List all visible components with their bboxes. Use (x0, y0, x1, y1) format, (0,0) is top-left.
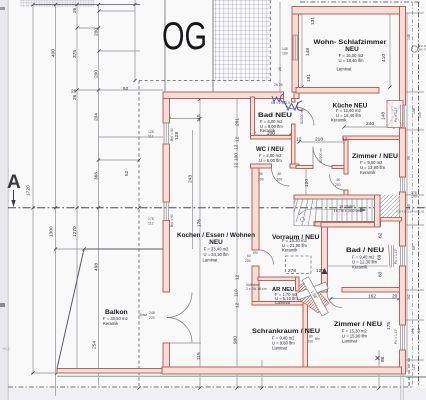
svg-text:Laminat: Laminat (337, 67, 353, 72)
wall: bad/zimmer divider seg2 (342, 288, 400, 293)
door arc: bad entry (284, 99, 295, 110)
svg-text:6%: 6% (315, 337, 320, 341)
section marker A (7, 172, 21, 207)
bottom page strip (0, 388, 426, 400)
svg-text:191: 191 (306, 74, 312, 82)
svg-text:243: 243 (188, 175, 194, 183)
svg-text:OG: OG (162, 15, 207, 58)
svg-text:240: 240 (366, 121, 374, 127)
wall: corridor south seg1 (296, 166, 313, 169)
left scan edge band (0, 0, 9, 400)
door arc: zimmer-mid from corridor (313, 147, 333, 167)
svg-text:18 Stufen: 18 Stufen (339, 205, 354, 209)
wall: bad-wc east seg1 (292, 99, 296, 103)
svg-text:12: 12 (235, 274, 241, 280)
svg-text:U = 34,10 lfm: U = 34,10 lfm (203, 252, 229, 257)
door arc: wc entry (272, 168, 290, 186)
room label: balkon (103, 309, 128, 326)
svg-text:375: 375 (72, 50, 78, 58)
svg-text:69: 69 (377, 254, 383, 260)
wall: bad/wc divider (251, 136, 296, 140)
boundary dash-dot right x419.5 (418, 2, 420, 387)
dim horizontal y51 (99, 50, 140, 52)
room label: zimmer bottom (334, 321, 382, 344)
wall: north exterior (292, 7, 406, 15)
door arc: zimmer-mid second (330, 175, 346, 191)
svg-text:278: 278 (288, 268, 296, 274)
svg-text:Laminat: Laminat (272, 346, 288, 351)
svg-text:Bad NEU: Bad NEU (258, 112, 293, 119)
AR corner red hatch backdrop (299, 280, 329, 313)
svg-text:Laminat: Laminat (275, 300, 291, 305)
svg-text:60: 60 (337, 178, 341, 182)
svg-text:80: 80 (278, 172, 282, 176)
wall: left exterior segment 1 (163, 92, 170, 123)
svg-text:99: 99 (407, 156, 411, 160)
svg-text:+6,2: +6,2 (2, 346, 11, 351)
svg-text:Keramik: Keramik (282, 248, 298, 253)
door arc: balkon french left bottom (167, 318, 192, 343)
micro annotations (140, 34, 425, 370)
room label: AR neu (272, 287, 298, 305)
dim horizontal y90 (77, 89, 163, 91)
svg-text:204: 204 (94, 113, 100, 121)
dim horizontal y343 door sill (166, 342, 201, 344)
dim horizontal y160 (99, 159, 140, 161)
window: right wall zimmer-mid (401, 177, 405, 192)
dim horizontal y11 (99, 10, 135, 12)
svg-text:162: 162 (407, 294, 411, 300)
stairs walk line with arrow (299, 209, 366, 215)
wall: bad-lower north from stairs (321, 223, 375, 228)
svg-text:U = 6,00 lfm: U = 6,00 lfm (259, 158, 282, 163)
circle symbol right (411, 46, 417, 52)
svg-text:A: A (7, 172, 21, 193)
green line below bottom wall (57, 375, 412, 377)
room label: vorraum (272, 234, 320, 253)
svg-text:410: 410 (381, 54, 387, 62)
svg-text:12: 12 (235, 136, 241, 142)
dim vertical x200 interior chain (199, 99, 201, 388)
svg-text:366: 366 (94, 172, 100, 180)
dim vertical x280 (279, 2, 281, 92)
left edge smudge marks (0, 7, 5, 10)
svg-text:900: 900 (233, 336, 239, 344)
boundary dash-dot top y2 (300, 1, 420, 3)
svg-text:90/200 eh: 90/200 eh (319, 148, 323, 163)
svg-text:Keramik: Keramik (352, 265, 368, 270)
dim vertical x213 (212, 0, 214, 92)
dim horizontal top y4.5 (33, 4, 140, 6)
dim vertical x302 in schlafzimmer (301, 13, 303, 87)
horizontal dims (267, 121, 398, 300)
dim vertical x77 (76, 5, 78, 373)
svg-text:128: 128 (148, 130, 154, 134)
wall: stairs east (375, 195, 381, 227)
dim horizontal y118.5 tie (169, 118, 200, 120)
svg-text:Keramik: Keramik (360, 170, 376, 175)
wall: AR north (258, 277, 299, 281)
svg-text:Bad / NEU: Bad / NEU (346, 247, 384, 254)
window: schlafzimmer west wall (292, 35, 299, 60)
dashed rect skylight vorraum (286, 256, 312, 274)
wall: bad-wc east seg2 (292, 124, 296, 164)
svg-text:12: 12 (296, 137, 302, 143)
wall: schrankraum/zimmer divider (303, 295, 308, 367)
svg-text:200: 200 (258, 178, 264, 182)
dim vertical x306 corridor (305, 168, 307, 195)
svg-text:100: 100 (234, 153, 240, 161)
room label: wc neu (256, 147, 284, 163)
svg-text:Ka = 2,5x1,5: Ka = 2,5x1,5 (271, 101, 290, 105)
svg-text:200: 200 (335, 183, 341, 187)
wall: stairs north (294, 195, 380, 199)
wall: stub right of bad door (294, 92, 299, 99)
svg-text:254: 254 (92, 341, 98, 349)
svg-text:6%: 6% (253, 251, 258, 255)
window: left wall lower (163, 202, 170, 221)
svg-text:Balkon: Balkon (105, 309, 128, 316)
svg-text:109: 109 (282, 52, 288, 56)
svg-text:148: 148 (305, 48, 311, 56)
room label: schrankraum (252, 328, 320, 351)
svg-text:69: 69 (412, 246, 416, 250)
svg-text:60: 60 (378, 271, 384, 277)
svg-text:Keramik: Keramik (103, 321, 119, 326)
dashed vertical x139 (138, 81, 140, 389)
boundary vertical x409 bottom right (408, 358, 410, 387)
hatch area top-center (roof below) (214, 0, 271, 81)
wall: bottom exterior (162, 367, 402, 374)
svg-text:Zimmer / NEU: Zimmer / NEU (352, 153, 398, 160)
stairs walk start circle (301, 218, 305, 222)
boundary dash-dot bottom y387 (8, 386, 412, 388)
x mark bottom (376, 356, 380, 360)
svg-text:115: 115 (412, 364, 416, 370)
svg-text:16,7/6 x 28,0 cm: 16,7/6 x 28,0 cm (334, 209, 361, 213)
AR diagonal bar B (302, 277, 328, 316)
svg-text:120: 120 (304, 179, 310, 187)
svg-text:86: 86 (380, 356, 386, 362)
svg-text:175: 175 (386, 322, 392, 330)
svg-text:1270: 1270 (72, 226, 78, 237)
dim horizontal y373 rail tie (31, 372, 57, 374)
svg-text:62: 62 (378, 232, 384, 238)
svg-text:Kochen / Essen / Wohnen: Kochen / Essen / Wohnen (177, 232, 255, 239)
svg-text:Brü = 90: Brü = 90 (170, 128, 174, 141)
dim horizontal y127 kueche (344, 126, 395, 128)
shaft box kueche (387, 101, 403, 128)
stairs winder treads (315, 199, 317, 226)
svg-text:162: 162 (368, 294, 376, 300)
dim horizontal y298.5 (331, 298, 399, 300)
wall: schlafzimmer west (292, 10, 299, 92)
svg-text:90/200 eh: 90/200 eh (300, 109, 304, 124)
svg-text:26: 26 (278, 67, 282, 71)
svg-text:26 26: 26 26 (274, 83, 283, 87)
wall: schlafzimmer/kueche divider (296, 88, 379, 94)
svg-text:12: 12 (234, 162, 240, 168)
AR diagonal bar A (296, 282, 328, 300)
svg-text:248: 248 (149, 311, 155, 315)
room label: zimmer mid (352, 153, 398, 175)
svg-text:143: 143 (407, 204, 411, 210)
room label: bad neu (258, 112, 293, 133)
section line A-A (8, 207, 426, 209)
hatch strip top-left (20, 0, 95, 7)
stairs treads (321, 199, 323, 223)
svg-text:12: 12 (316, 268, 322, 274)
svg-text:Zimmer / NEU: Zimmer / NEU (334, 321, 382, 328)
svg-text:200: 200 (245, 259, 251, 263)
dim vertical x262 bottom (261, 360, 263, 388)
window: right wall bad-lower (389, 245, 405, 268)
svg-text:20: 20 (392, 294, 398, 300)
svg-text:Pu = 1,17: Pu = 1,17 (394, 249, 398, 264)
wall: left exterior segment 2 (163, 144, 170, 202)
dim vertical x237 interior chain (236, 97, 238, 388)
room label: wohn-schlafzimmer (314, 39, 388, 72)
dim vertical x135 (134, 0, 136, 81)
svg-text:115: 115 (196, 352, 202, 360)
dim vertical x165 top (164, 0, 166, 92)
svg-text:Pu = 1,17: Pu = 1,17 (394, 329, 398, 344)
svg-text:Keramik: Keramik (331, 118, 347, 123)
svg-text:80: 80 (259, 172, 263, 176)
blue handwriting WC (272, 94, 304, 110)
wall: right exterior seg2 (400, 128, 406, 177)
dim vertical x192.5 interior (192, 130, 194, 249)
wall: corridor south seg2 (332, 166, 344, 169)
svg-text:201: 201 (235, 118, 241, 126)
wall: corridor west seg1 (252, 168, 259, 250)
svg-text:128: 128 (417, 328, 421, 334)
svg-text:F = 33,40 m2: F = 33,40 m2 (204, 247, 229, 252)
wall: right exterior seg1 (400, 7, 406, 106)
window: right wall zimmer-bottom (401, 325, 405, 350)
wall: balkon south rail (57, 369, 162, 374)
svg-text:178: 178 (148, 217, 154, 221)
right chain ticks (405, 12, 424, 14)
svg-text:52: 52 (124, 170, 130, 176)
svg-text:148: 148 (282, 47, 288, 51)
dim vertical x33 (32, 5, 34, 374)
dim vertical x379 bottom (378, 350, 380, 388)
svg-text:26: 26 (71, 89, 77, 95)
svg-text:115: 115 (196, 114, 202, 122)
svg-text:110: 110 (234, 289, 240, 297)
wall: wc south seg1 (251, 164, 272, 168)
svg-text:2 x DN 16 cm: 2 x DN 16 cm (246, 287, 267, 291)
svg-text:200: 200 (267, 131, 275, 137)
svg-text:498: 498 (94, 263, 100, 271)
svg-text:400: 400 (51, 49, 57, 57)
svg-text:U = 18,40 lfm: U = 18,40 lfm (338, 58, 364, 63)
svg-text:200: 200 (308, 340, 314, 344)
door arc: kueche entry (296, 107, 315, 126)
svg-text:Pu = 1,17: Pu = 1,17 (394, 107, 398, 122)
svg-text:148: 148 (412, 108, 416, 114)
svg-text:220: 220 (149, 316, 155, 320)
svg-text:12: 12 (234, 144, 240, 150)
dashed horizontal y80.5 (139, 80, 272, 82)
right chain vertical x407 (406, 13, 408, 372)
wall: left exterior segment 4 (163, 343, 170, 374)
svg-text:1300: 1300 (49, 226, 55, 237)
svg-text:112: 112 (148, 222, 154, 226)
svg-text:1720: 1720 (26, 185, 32, 196)
wall: zimmer-mid north (343, 136, 400, 140)
svg-text:112: 112 (148, 135, 154, 139)
svg-text:109: 109 (411, 195, 417, 199)
svg-text:26: 26 (72, 94, 78, 100)
svg-text:Brise: Brise (140, 313, 148, 317)
svg-text:178: 178 (411, 328, 415, 334)
wall: stairs south (314, 222, 381, 227)
svg-text:NEU: NEU (345, 46, 359, 53)
svg-text:200: 200 (277, 178, 283, 182)
dim horizontal y28 (77, 27, 99, 29)
hatch right dashed boundary (269, 0, 271, 81)
svg-text:DN 70: DN 70 (419, 48, 426, 52)
room label: kochen essen wohnen (177, 232, 255, 263)
svg-text:200: 200 (94, 70, 100, 78)
right chain vertical x412.5 (412, 2, 414, 387)
svg-text:Laminat: Laminat (342, 339, 358, 344)
dim vertical x98.5 (98, 5, 100, 386)
dim horizontal y133.5 bad (254, 134, 291, 136)
wall: bad/zimmer divider seg1 (303, 288, 327, 293)
dim vertical x55.5 (55, 5, 57, 397)
door arc: zimmer-bottom entry (327, 293, 342, 308)
svg-text:148: 148 (407, 34, 411, 40)
door arc: vorraum from kochen (259, 250, 274, 265)
dim horizontal y137 window sill (99, 136, 164, 138)
window: right wall kueche (401, 105, 405, 128)
balkon top edge (84, 248, 163, 250)
window: left wall upper (163, 123, 170, 144)
svg-text:Wohn- Schlafzimmer: Wohn- Schlafzimmer (314, 39, 388, 46)
wall: right exterior seg3 (400, 266, 406, 325)
svg-text:148: 148 (381, 112, 387, 120)
svg-text:Laminat: Laminat (203, 258, 219, 263)
balkon slanted west edge (57, 249, 84, 369)
svg-text:131: 131 (310, 17, 316, 25)
door arc: balkon french left top (167, 293, 192, 318)
svg-text:Brü = 90: Brü = 90 (170, 214, 174, 227)
svg-text:60: 60 (247, 254, 251, 258)
svg-text:26: 26 (72, 7, 78, 13)
svg-text:128: 128 (174, 132, 180, 140)
line stub right of corner (406, 376, 426, 378)
slope hatch east of stairs (381, 195, 400, 218)
line stubs below corner (400, 375, 402, 400)
wall: wc south seg2 (290, 164, 299, 168)
svg-text:80: 80 (309, 335, 313, 339)
wall: schrankraum north (252, 302, 307, 306)
wall: left exterior segment 3 (163, 221, 170, 293)
wall: zimmer-mid west seg2 (344, 190, 348, 197)
wall tick mark (322, 268, 328, 274)
wall: right exterior seg4 (400, 350, 406, 374)
dim horizontal y142 (299, 141, 345, 143)
svg-text:109: 109 (418, 112, 422, 118)
svg-text:52: 52 (123, 86, 129, 92)
svg-text:218: 218 (315, 137, 323, 143)
wall: AR east stub (296, 277, 300, 291)
wall: bad-lower west (322, 224, 328, 292)
room label: bad lower (346, 247, 384, 270)
svg-text:12: 12 (235, 302, 241, 308)
stairs outline (294, 199, 375, 226)
wall: corridor west seg2 (252, 266, 259, 305)
bad interior partition line (328, 265, 389, 267)
svg-text:NEU: NEU (209, 239, 223, 246)
dim horizontal y249 balkon top tie (56, 248, 85, 250)
svg-text:176: 176 (197, 219, 203, 227)
svg-text:200: 200 (94, 28, 100, 36)
wall: zimmer-mid west seg (344, 139, 348, 174)
wall: top-left interior (north of kochen) (163, 92, 284, 99)
room label: kueche (331, 103, 368, 123)
svg-text:12: 12 (342, 137, 348, 143)
wall: bad west (251, 97, 255, 139)
dim vertical x381 in schlafzimmer (389, 13, 391, 87)
